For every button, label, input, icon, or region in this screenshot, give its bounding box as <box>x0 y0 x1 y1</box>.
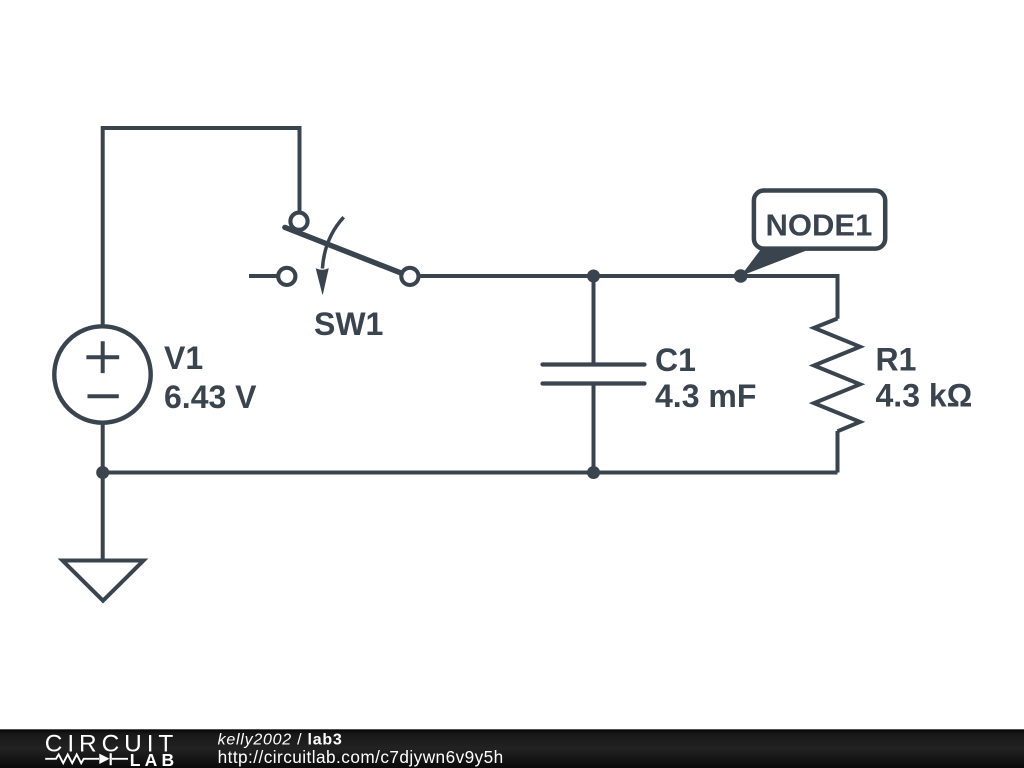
svg-text:NODE1: NODE1 <box>766 208 873 243</box>
svg-text:6.43 V: 6.43 V <box>164 379 257 415</box>
switch SW1 blade <box>285 227 400 272</box>
wire: bottom ground rail <box>103 471 838 475</box>
wire: C1 bottom lead <box>592 384 596 473</box>
junction: top rail at C1 <box>587 270 600 283</box>
switch SW1 common terminal <box>290 213 307 230</box>
wire: SW1 output along top rail to R1 top <box>420 276 837 319</box>
svg-text:4.3 kΩ: 4.3 kΩ <box>876 378 973 414</box>
node NODE1 callout box <box>754 191 885 249</box>
wire: C1 top lead <box>592 276 596 365</box>
switch SW1 arrowhead <box>316 268 329 294</box>
wire: R1 bottom lead <box>836 431 840 473</box>
svg-text:http://circuitlab.com/c7djywn6: http://circuitlab.com/c7djywn6v9y5h <box>218 747 504 767</box>
svg-text:V1: V1 <box>164 340 203 376</box>
svg-text:4.3 mF: 4.3 mF <box>655 378 756 414</box>
switch SW1 left throw terminal <box>278 268 295 285</box>
CircuitLab logo diode <box>99 754 109 764</box>
V1 plus sign <box>86 341 119 373</box>
resistor R1 zigzag <box>814 319 860 432</box>
V1 minus sign <box>88 394 119 398</box>
switch SW1 actuation arrow arc <box>322 217 343 268</box>
switch SW1 right throw terminal <box>401 268 418 285</box>
wire: V1 negative terminal down to bottom rail <box>101 420 105 473</box>
node NODE1 dot <box>734 269 748 283</box>
wire: V1 positive terminal up and over to SW1 common <box>103 128 300 330</box>
svg-text:LAB: LAB <box>130 750 179 768</box>
junction: bottom rail at C1 <box>587 466 600 479</box>
node NODE1 callout pointer <box>741 248 809 277</box>
voltage source V1 body <box>54 326 150 422</box>
wire: ground stem <box>101 473 105 561</box>
svg-text:SW1: SW1 <box>314 306 383 342</box>
svg-text:R1: R1 <box>876 342 917 378</box>
capacitor C1 plates <box>543 365 645 384</box>
ground symbol <box>63 561 144 601</box>
junction: bottom rail at ground tap <box>96 466 109 479</box>
CircuitLab logo resistor-diode squiggle <box>45 754 99 763</box>
wire: SW1 unconnected left throw stub <box>249 274 278 278</box>
svg-text:C1: C1 <box>655 342 696 378</box>
